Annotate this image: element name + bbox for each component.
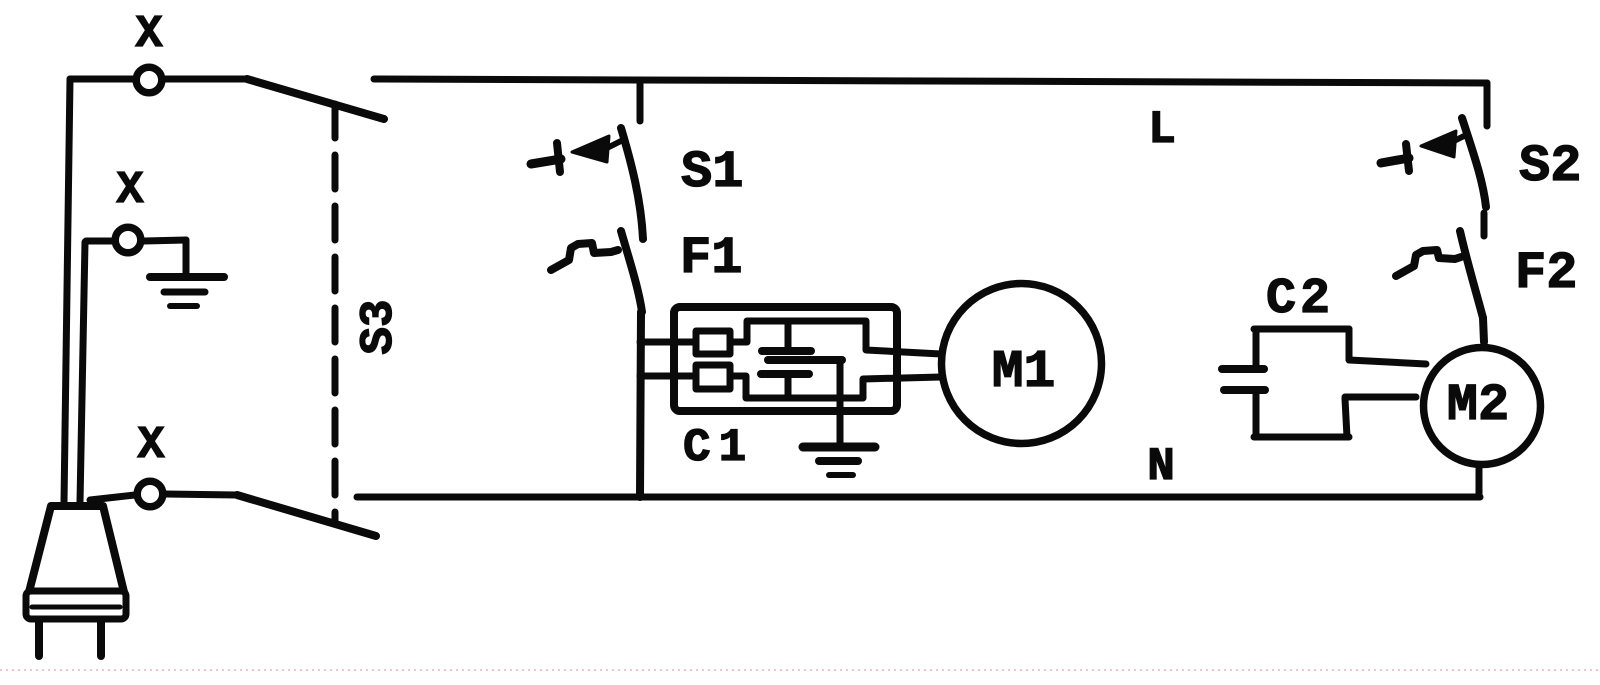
svg-text:C1: C1 <box>683 422 754 474</box>
svg-text:S1: S1 <box>681 143 743 202</box>
svg-text:M2: M2 <box>1447 376 1509 435</box>
svg-text:S3: S3 <box>353 299 405 354</box>
svg-text:M1: M1 <box>992 342 1056 402</box>
svg-text:X: X <box>137 420 164 471</box>
svg-text:X: X <box>135 9 162 60</box>
svg-text:S2: S2 <box>1519 137 1581 196</box>
svg-text:X: X <box>116 165 143 216</box>
svg-text:L: L <box>1148 104 1176 156</box>
svg-text:F1: F1 <box>680 229 742 288</box>
svg-text:F2: F2 <box>1515 244 1577 303</box>
svg-text:C2: C2 <box>1266 271 1334 328</box>
svg-text:N: N <box>1147 441 1175 493</box>
